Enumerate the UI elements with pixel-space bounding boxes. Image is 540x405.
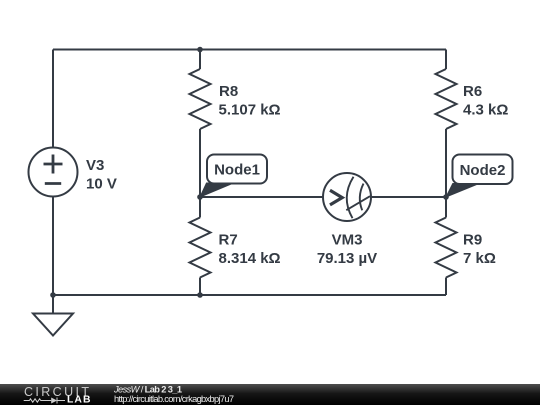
wire R9 bottom lead: [445, 278, 447, 296]
wire R7 bottom lead: [199, 278, 201, 296]
svg-text:http://circuitlab.com/crkagbxb: http://circuitlab.com/crkagbxbpj7u7: [114, 394, 234, 404]
svg-text:R8: R8: [219, 83, 238, 100]
node label Node1 callout: [200, 155, 267, 198]
wire R6 bottom lead to Node2: [445, 129, 447, 197]
junction dot top at R8: [197, 47, 203, 53]
wire middle top lead: [199, 50, 201, 70]
svg-text:Node2: Node2: [460, 162, 506, 179]
voltmeter VM3 circle: [323, 173, 371, 221]
svg-text:79.13 µV: 79.13 µV: [317, 250, 377, 267]
resistor R6: [436, 69, 457, 129]
resistor R9: [436, 218, 457, 278]
wire Node1 to voltmeter: [200, 196, 323, 198]
junction dot Node2: [443, 194, 449, 200]
voltmeter dial arc short: [360, 184, 364, 211]
ground symbol: [33, 314, 73, 336]
node label Node2 callout: [446, 155, 513, 198]
svg-text:R7: R7: [219, 231, 238, 248]
wire bottom horizontal: [53, 294, 446, 296]
wire top horizontal: [53, 49, 446, 51]
voltmeter dial arc long: [347, 177, 354, 218]
svg-text:4.3 kΩ: 4.3 kΩ: [463, 101, 508, 118]
voltmeter needle: [346, 196, 370, 210]
resistor R7: [190, 218, 211, 278]
wire right top lead: [445, 50, 447, 70]
svg-text:LAB: LAB: [67, 395, 91, 405]
svg-text:8.314 kΩ: 8.314 kΩ: [219, 250, 281, 267]
svg-text:R6: R6: [463, 83, 482, 100]
svg-text:VM3: VM3: [332, 231, 363, 248]
resistor R8: [190, 69, 211, 129]
wire R9 top lead: [445, 197, 447, 218]
svg-text:R9: R9: [463, 231, 482, 248]
voltage source V3 circle: [29, 148, 78, 197]
junction dot bottom at R7: [197, 292, 203, 298]
wire R7 top lead: [199, 197, 201, 218]
wire R8 bottom lead to Node1: [199, 129, 201, 197]
svg-text:10 V: 10 V: [86, 176, 117, 193]
voltmeter chevron: [330, 190, 342, 205]
V3 minus sign: [45, 182, 61, 185]
svg-text:JessW / Lab 2 3_1: JessW / Lab 2 3_1: [113, 384, 182, 394]
svg-text:7 kΩ: 7 kΩ: [463, 250, 496, 267]
wire left lower vertical: [52, 197, 54, 296]
junction dot Node1: [197, 194, 203, 200]
wire left upper vertical: [52, 50, 54, 148]
logo resistor-diode motif: [24, 398, 65, 404]
junction dot bottom left at ground: [50, 292, 56, 298]
ground stub wire: [52, 295, 54, 314]
wire voltmeter to Node2: [371, 196, 446, 198]
svg-text:V3: V3: [86, 157, 104, 174]
V3 plus sign: [44, 155, 63, 174]
svg-text:Node1: Node1: [214, 162, 260, 179]
footer bar: [0, 384, 540, 405]
svg-text:5.107 kΩ: 5.107 kΩ: [219, 101, 281, 118]
